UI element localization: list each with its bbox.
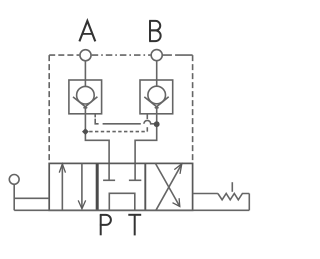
pilot line dashed from diamond [89, 131, 147, 133]
valve square boundary 2 [144, 163, 146, 210]
pilot stub CV2 solid [146, 114, 148, 119]
lever stem [13, 184, 15, 210]
right position cross arrow 1 [156, 164, 182, 210]
label A [79, 21, 95, 42]
bottom base line [14, 209, 249, 211]
check valve seat CV1 [73, 97, 97, 109]
enclosure top edge dashed left of A [49, 54, 79, 56]
wire A down to check valve [84, 61, 86, 87]
spring top rail [193, 193, 218, 195]
port A circle [80, 50, 91, 61]
port B circle [151, 50, 162, 61]
label P [100, 214, 111, 235]
center position blocked port bar B [129, 179, 141, 181]
enclosure top edge right of B [163, 54, 193, 56]
center position P-T bracket [109, 193, 135, 210]
spring zigzag [218, 194, 249, 200]
pilot line long solid run [103, 123, 141, 125]
pilot line dash vertical to CV2 stub [146, 127, 148, 131]
spring tick [231, 182, 233, 192]
enclosure left edge dashed [48, 55, 50, 163]
wire B below check valve with jog into valve port [135, 107, 157, 181]
center position blocked port bar A [103, 179, 115, 181]
check valve seat CV2 [144, 97, 168, 109]
junction dot on B line [154, 121, 160, 127]
lever knob [9, 175, 19, 185]
wire A below check valve with jog into valve port [85, 107, 109, 181]
left position down arrow [81, 163, 83, 208]
pilot stub CV1 solid [94, 114, 96, 118]
pilot line crossing arc [144, 120, 154, 123]
right position cross arrow 2 [156, 164, 180, 207]
enclosure top edge dash-dot between A and B [92, 54, 151, 56]
left position up arrow [61, 164, 63, 210]
lever link [14, 197, 49, 199]
check valve ball CV1 [77, 86, 95, 104]
valve square boundary thick [96, 163, 99, 210]
label T [128, 215, 141, 236]
enclosure right edge dashed [192, 55, 194, 163]
pilot line from CV1 corner dash [95, 119, 98, 124]
check valve box CV1 [69, 80, 102, 114]
valve body outline [49, 163, 192, 210]
wire B down to check valve [156, 61, 158, 87]
check valve box CV2 [140, 80, 173, 114]
label B [149, 21, 160, 42]
spring end plate [248, 194, 250, 211]
check valve ball CV2 [148, 86, 166, 104]
junction diamond on A line [82, 128, 89, 135]
